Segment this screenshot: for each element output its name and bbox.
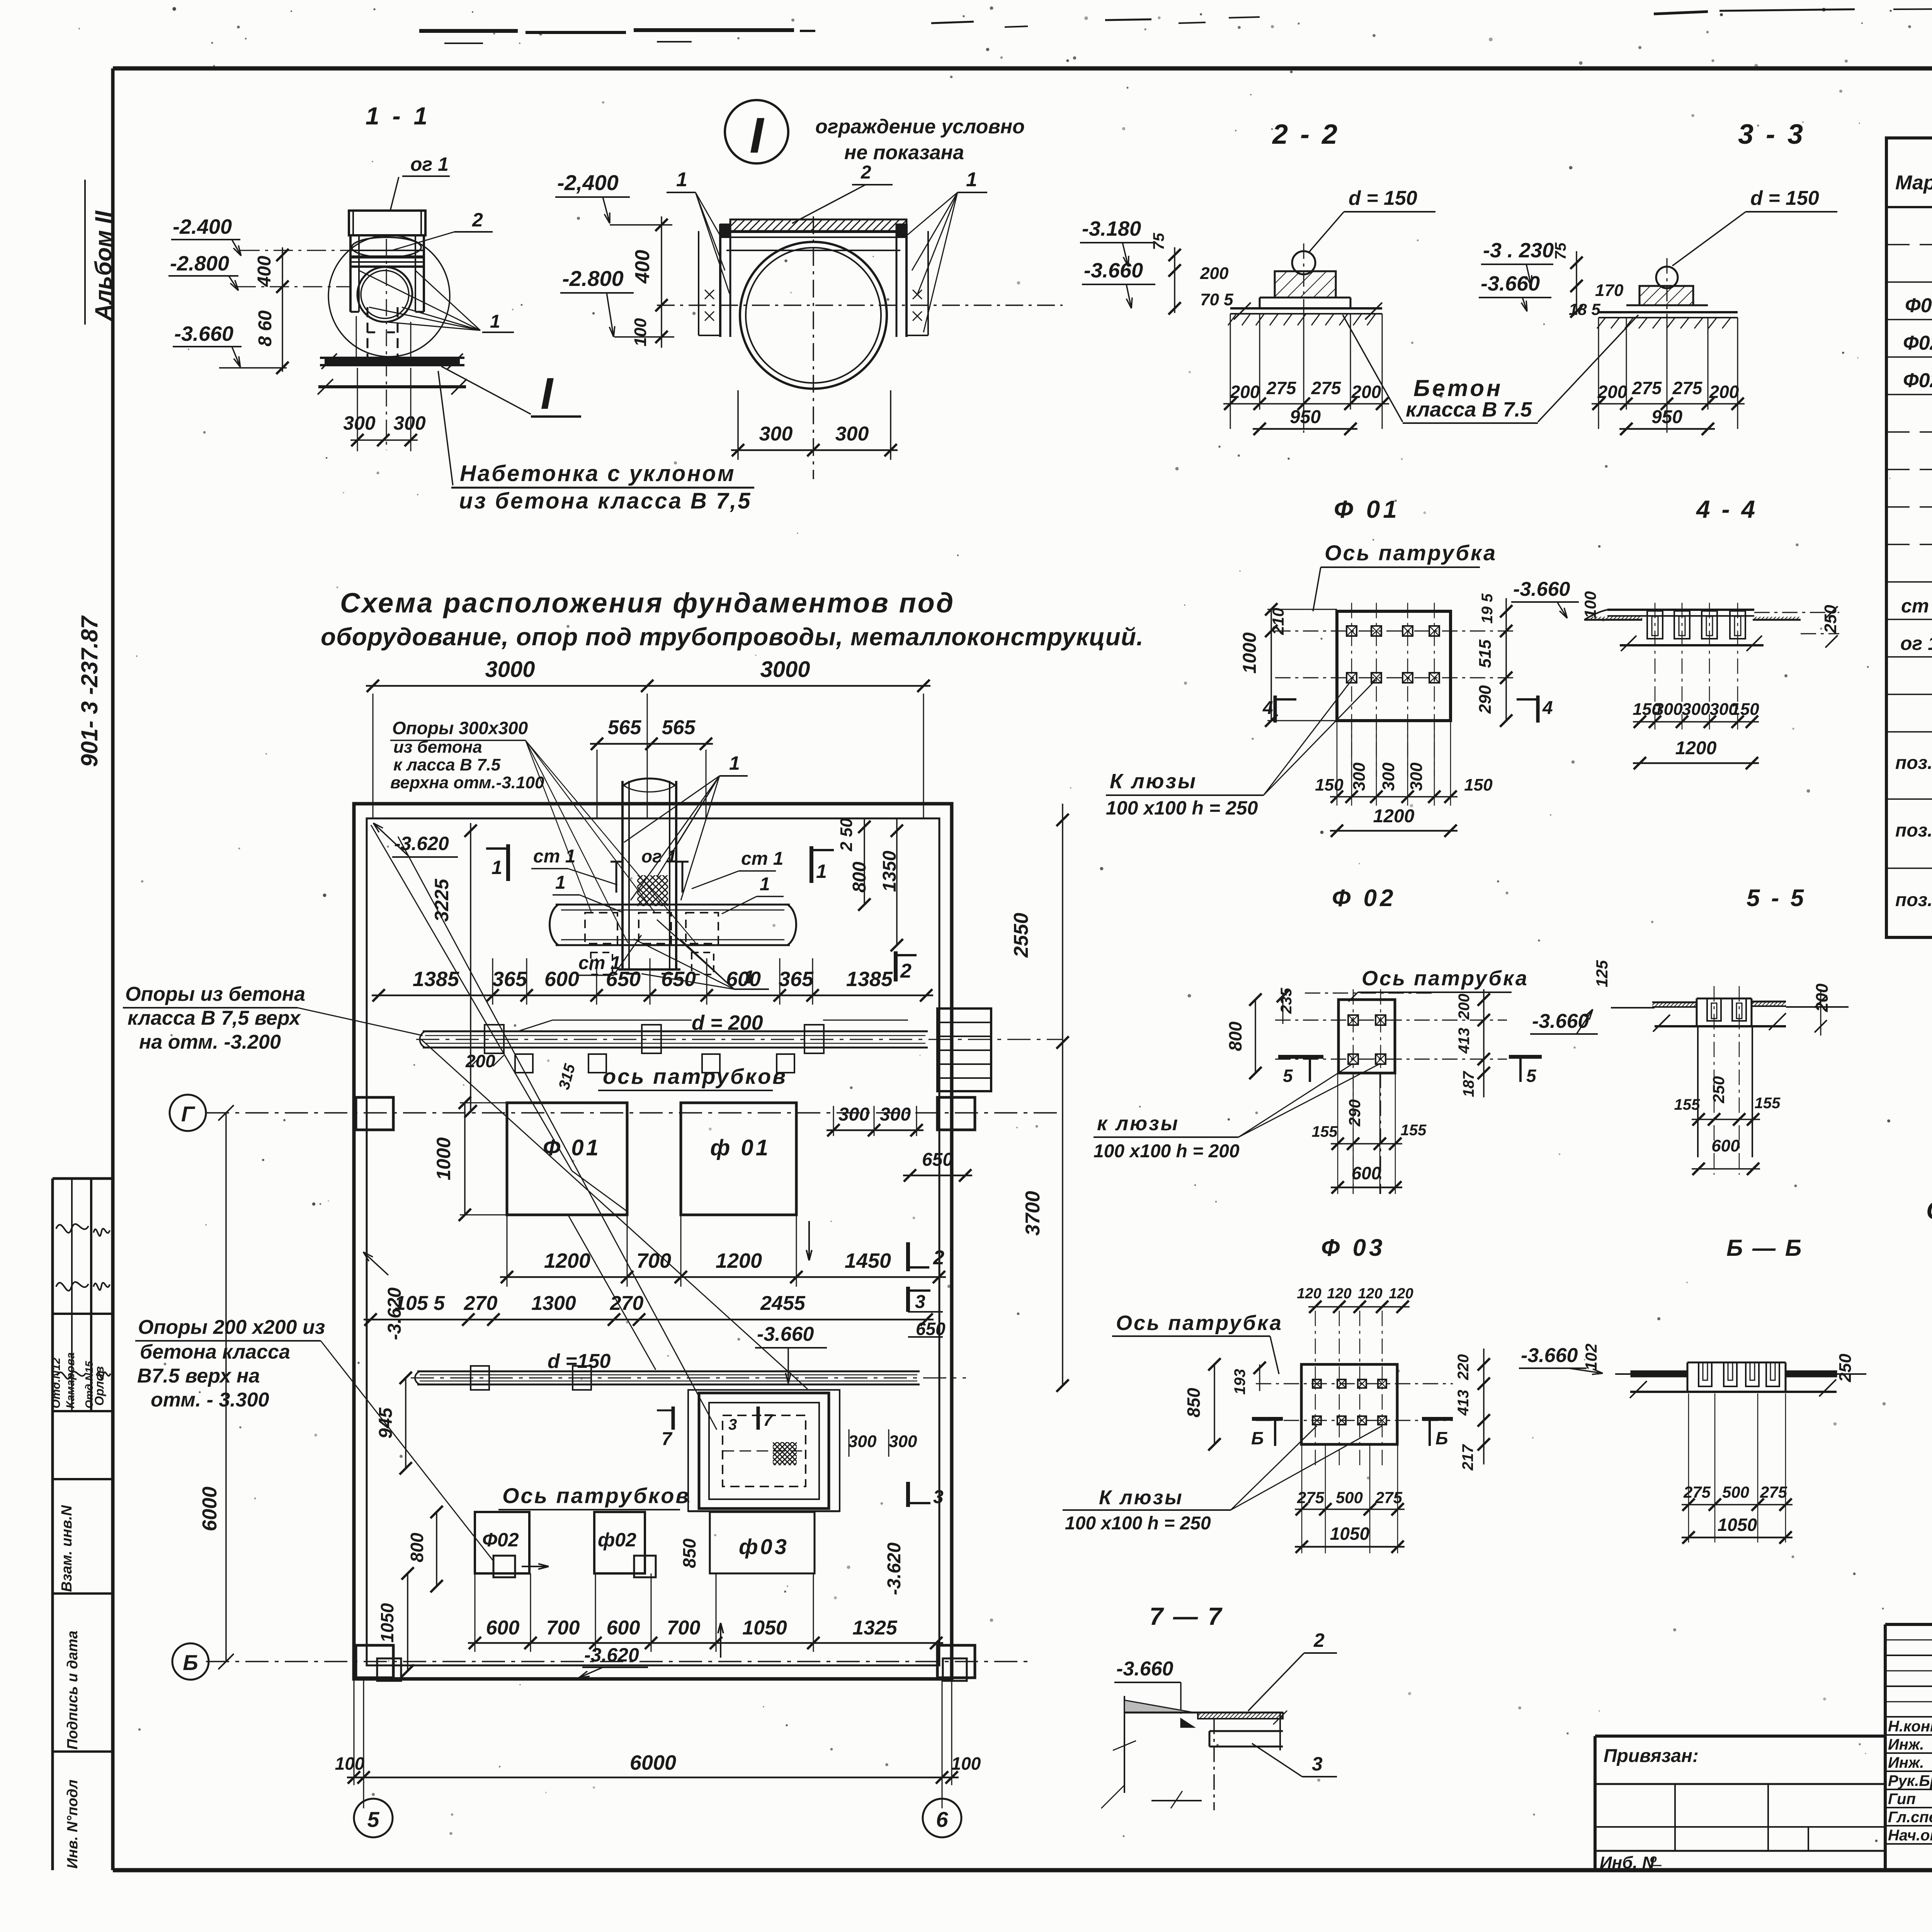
svg-text:500: 500 — [1336, 1488, 1363, 1507]
svg-text:-2.400: -2.400 — [173, 215, 232, 238]
svg-text:290: 290 — [1476, 685, 1495, 714]
svg-text:ст 1: ст 1 — [1901, 595, 1932, 617]
svg-text:бетона класса: бетона класса — [140, 1341, 290, 1363]
svg-text:2: 2 — [472, 209, 483, 231]
svg-text:120: 120 — [1389, 1286, 1413, 1302]
svg-text:Опоры 300х300: Опоры 300х300 — [392, 718, 528, 738]
svg-text:275: 275 — [1632, 378, 1662, 398]
svg-text:d = 150: d = 150 — [1349, 187, 1417, 209]
svg-text:300: 300 — [848, 1432, 877, 1451]
svg-text:-3.620: -3.620 — [384, 1287, 405, 1340]
svg-text:600: 600 — [544, 968, 579, 991]
svg-text:2550: 2550 — [1010, 913, 1032, 958]
svg-text:ог 1: ог 1 — [641, 846, 677, 866]
svg-text:ог 1: ог 1 — [410, 153, 449, 175]
svg-text:75: 75 — [1150, 233, 1167, 250]
svg-text:-3.660: -3.660 — [174, 322, 233, 345]
svg-text:1: 1 — [492, 857, 502, 878]
svg-text:565: 565 — [662, 716, 696, 739]
svg-text:Ф 01: Ф 01 — [1334, 495, 1400, 523]
svg-text:Привязан:: Привязан: — [1604, 1746, 1699, 1766]
svg-text:I: I — [541, 369, 554, 418]
svg-text:-2.800: -2.800 — [170, 252, 229, 275]
svg-text:d =150: d =150 — [548, 1350, 611, 1372]
svg-text:-3.620: -3.620 — [884, 1543, 905, 1595]
svg-text:поз. 3: поз. 3 — [1895, 890, 1932, 910]
svg-text:1 - 1: 1 - 1 — [366, 102, 430, 130]
svg-text:565: 565 — [608, 716, 642, 739]
svg-text:3000: 3000 — [760, 657, 810, 682]
svg-text:300: 300 — [1350, 762, 1369, 791]
svg-text:ог 1: ог 1 — [1900, 633, 1932, 654]
svg-text:1000: 1000 — [1240, 632, 1260, 673]
svg-text:187: 187 — [1460, 1071, 1477, 1097]
svg-text:275: 275 — [1672, 378, 1703, 398]
svg-text:Ф02: Ф02 — [1903, 369, 1932, 392]
svg-text:1: 1 — [966, 168, 977, 191]
svg-text:2 50: 2 50 — [837, 818, 856, 852]
svg-text:7: 7 — [763, 1411, 774, 1430]
svg-text:400: 400 — [631, 250, 654, 284]
svg-text:650: 650 — [916, 1319, 946, 1339]
svg-text:200: 200 — [1456, 994, 1473, 1020]
svg-text:к ласса В 7.5: к ласса В 7.5 — [393, 755, 501, 774]
svg-text:-3.660: -3.660 — [1513, 578, 1570, 600]
svg-text:7: 7 — [662, 1429, 673, 1449]
svg-text:Набетонка с уклоном: Набетонка с уклоном — [460, 461, 736, 486]
svg-text:к люзы: к люзы — [1097, 1112, 1179, 1135]
svg-text:300: 300 — [1407, 762, 1426, 791]
svg-text:1200: 1200 — [716, 1249, 762, 1272]
svg-text:Камарова: Камарова — [64, 1352, 77, 1408]
svg-text:Инж.: Инж. — [1888, 1736, 1924, 1753]
svg-text:d = 200: d = 200 — [692, 1011, 763, 1034]
svg-text:400: 400 — [254, 256, 275, 287]
svg-text:-3.660: -3.660 — [1481, 272, 1540, 295]
svg-text:300: 300 — [759, 423, 793, 445]
svg-text:-3.660: -3.660 — [1521, 1344, 1578, 1367]
svg-text:-2.800: -2.800 — [562, 266, 624, 291]
svg-text:500: 500 — [1722, 1483, 1749, 1501]
svg-text:413: 413 — [1455, 1390, 1472, 1416]
svg-text:270: 270 — [610, 1292, 644, 1315]
svg-text:не показана: не показана — [844, 141, 964, 164]
svg-text:125: 125 — [1593, 960, 1611, 987]
svg-text:1385: 1385 — [413, 968, 459, 991]
svg-text:250: 250 — [1821, 605, 1840, 634]
svg-text:5: 5 — [367, 1807, 379, 1832]
svg-text:200: 200 — [1351, 382, 1381, 402]
svg-text:-3.660: -3.660 — [757, 1323, 814, 1345]
svg-text:Взам. инв.N: Взам. инв.N — [59, 1505, 75, 1592]
svg-text:250: 250 — [1836, 1354, 1855, 1383]
svg-text:поз. 1: поз. 1 — [1895, 753, 1932, 773]
svg-text:3: 3 — [728, 1416, 737, 1433]
svg-text:Г: Г — [181, 1102, 196, 1126]
svg-text:6: 6 — [936, 1807, 948, 1832]
svg-text:700: 700 — [546, 1617, 580, 1639]
svg-text:150: 150 — [1731, 700, 1759, 719]
svg-text:200: 200 — [1200, 264, 1229, 283]
svg-text:155: 155 — [1401, 1122, 1427, 1139]
svg-text:850: 850 — [679, 1538, 699, 1568]
svg-text:Ось патрубка: Ось патрубка — [1325, 541, 1497, 565]
svg-text:1450: 1450 — [845, 1249, 891, 1272]
svg-text:250: 250 — [1709, 1076, 1728, 1104]
svg-text:275: 275 — [1760, 1483, 1787, 1501]
svg-text:Б: Б — [1251, 1428, 1264, 1448]
svg-text:275: 275 — [1683, 1483, 1711, 1501]
svg-text:3: 3 — [933, 1487, 944, 1507]
svg-text:600: 600 — [726, 968, 761, 991]
svg-text:270: 270 — [464, 1292, 498, 1315]
svg-text:170: 170 — [1595, 281, 1624, 300]
svg-text:1300: 1300 — [531, 1292, 576, 1315]
svg-text:950: 950 — [1290, 407, 1321, 427]
svg-text:220: 220 — [1455, 1354, 1472, 1381]
svg-text:5: 5 — [1526, 1066, 1537, 1086]
svg-text:1: 1 — [555, 872, 566, 893]
svg-text:ст 1: ст 1 — [533, 846, 575, 867]
svg-text:120: 120 — [1297, 1286, 1321, 1302]
svg-text:100: 100 — [631, 318, 650, 347]
svg-text:150: 150 — [1464, 776, 1493, 794]
svg-text:290: 290 — [1345, 1099, 1364, 1127]
svg-text:2: 2 — [1313, 1629, 1325, 1651]
svg-text:515: 515 — [1476, 639, 1495, 668]
svg-text:К люзы: К люзы — [1099, 1486, 1184, 1509]
svg-text:Опоры 200 х200 из: Опоры 200 х200 из — [138, 1316, 325, 1338]
svg-text:950: 950 — [1651, 407, 1682, 427]
svg-text:650: 650 — [922, 1150, 953, 1170]
svg-text:Схема расположения фундаменто: Схема расположения фундаментов под — [340, 588, 955, 619]
svg-text:800: 800 — [1225, 1021, 1245, 1051]
svg-text:6000: 6000 — [630, 1751, 676, 1774]
svg-text:Инб. N: Инб. N — [1600, 1853, 1655, 1872]
svg-text:Б — Б: Б — Б — [1726, 1235, 1803, 1261]
svg-text:ст 1: ст 1 — [741, 849, 783, 869]
svg-text:155: 155 — [1674, 1096, 1700, 1113]
svg-text:ф02: ф02 — [598, 1529, 636, 1551]
svg-text:1050: 1050 — [742, 1617, 787, 1639]
svg-text:5 - 5: 5 - 5 — [1747, 885, 1806, 912]
svg-text:300: 300 — [838, 1104, 869, 1125]
svg-text:150: 150 — [1315, 776, 1344, 794]
svg-text:650: 650 — [606, 968, 641, 991]
svg-text:210: 210 — [1269, 608, 1287, 635]
svg-text:155: 155 — [1312, 1123, 1338, 1140]
svg-text:-3.660: -3.660 — [1084, 259, 1143, 282]
svg-text:отм. - 3.300: отм. - 3.300 — [151, 1389, 269, 1411]
svg-text:Ось патрубка: Ось патрубка — [1116, 1311, 1283, 1335]
svg-text:Ф02: Ф02 — [1903, 332, 1932, 354]
svg-text:2: 2 — [900, 960, 912, 982]
svg-text:300: 300 — [1379, 762, 1398, 791]
svg-text:Опоры из бетона: Опоры из бетона — [125, 983, 305, 1005]
svg-text:Подпись и дата: Подпись и дата — [65, 1631, 81, 1750]
svg-text:Рук.Бр.: Рук.Бр. — [1888, 1772, 1932, 1789]
svg-text:Ф02: Ф02 — [482, 1529, 519, 1551]
svg-text:800: 800 — [849, 862, 870, 893]
svg-text:7 — 7: 7 — 7 — [1150, 1602, 1223, 1630]
svg-text:1200: 1200 — [1373, 806, 1415, 827]
svg-text:365: 365 — [779, 968, 814, 991]
svg-text:413: 413 — [1456, 1028, 1473, 1054]
svg-text:Инв. N°подл: Инв. N°подл — [65, 1779, 81, 1869]
svg-text:1050: 1050 — [1330, 1524, 1370, 1544]
svg-text:4: 4 — [1542, 698, 1553, 718]
svg-text:о: о — [1650, 1852, 1657, 1865]
svg-text:800: 800 — [407, 1532, 427, 1562]
svg-text:1200: 1200 — [1675, 738, 1717, 759]
svg-text:-2,400: -2,400 — [557, 170, 619, 195]
svg-text:365: 365 — [492, 968, 527, 991]
svg-text:217: 217 — [1459, 1444, 1476, 1471]
svg-text:3: 3 — [915, 1292, 925, 1312]
svg-text:-3 . 230: -3 . 230 — [1483, 239, 1554, 262]
svg-text:1325: 1325 — [852, 1617, 898, 1639]
svg-text:2: 2 — [861, 162, 871, 183]
svg-text:300: 300 — [889, 1432, 917, 1451]
svg-text:Н.контр: Н.контр — [1888, 1718, 1932, 1735]
svg-text:3: 3 — [1312, 1753, 1323, 1775]
svg-text:300: 300 — [343, 412, 376, 434]
svg-text:1200: 1200 — [544, 1249, 590, 1272]
svg-text:класса В 7,5 верх: класса В 7,5 верх — [128, 1007, 301, 1029]
svg-text:155: 155 — [1755, 1095, 1781, 1112]
svg-text:1: 1 — [816, 861, 827, 882]
svg-text:901- 3 -237.87: 901- 3 -237.87 — [77, 615, 102, 767]
svg-text:6000: 6000 — [199, 1486, 221, 1531]
svg-text:поз. 2: поз. 2 — [1895, 820, 1932, 841]
svg-text:300: 300 — [1682, 700, 1710, 719]
svg-text:4 - 4: 4 - 4 — [1696, 495, 1757, 523]
svg-text:5: 5 — [1283, 1066, 1293, 1086]
svg-text:70 5: 70 5 — [1200, 290, 1233, 309]
svg-text:700: 700 — [667, 1617, 701, 1639]
svg-text:300: 300 — [835, 423, 869, 445]
svg-text:Б: Б — [1435, 1428, 1448, 1448]
svg-text:ограждение условно: ограждение условно — [815, 116, 1025, 138]
svg-text:Б: Б — [183, 1650, 198, 1675]
svg-text:Ф 01: Ф 01 — [543, 1135, 601, 1160]
svg-text:650: 650 — [661, 968, 696, 991]
svg-text:1: 1 — [729, 752, 740, 774]
svg-text:275: 275 — [1375, 1488, 1403, 1507]
svg-text:Нач.отд: Нач.отд — [1888, 1827, 1932, 1844]
svg-text:3700: 3700 — [1022, 1191, 1044, 1236]
svg-text:102: 102 — [1582, 1344, 1600, 1371]
svg-text:8 60: 8 60 — [255, 310, 276, 347]
svg-text:I: I — [750, 107, 765, 163]
svg-text:-3.180: -3.180 — [1082, 217, 1141, 240]
svg-text:1050: 1050 — [1718, 1515, 1757, 1535]
svg-text:Ось патрубка: Ось патрубка — [1362, 967, 1529, 990]
svg-text:1000: 1000 — [433, 1137, 454, 1180]
svg-text:100: 100 — [335, 1753, 365, 1774]
svg-text:120: 120 — [1358, 1286, 1382, 1302]
svg-text:275: 275 — [1311, 378, 1342, 398]
svg-text:Ф01: Ф01 — [1905, 294, 1932, 317]
svg-text:Марка: Марка — [1895, 172, 1932, 194]
svg-text:Совместно с данным см. л: Совместно с данным см. л. КЖ-2. — [1926, 1196, 1932, 1225]
svg-text:19 5: 19 5 — [1479, 593, 1496, 624]
svg-text:1350: 1350 — [879, 850, 900, 892]
svg-text:Инж.: Инж. — [1888, 1754, 1924, 1771]
svg-text:-3.660: -3.660 — [1116, 1658, 1173, 1680]
svg-text:4: 4 — [1262, 698, 1273, 718]
svg-text:600: 600 — [607, 1617, 640, 1639]
svg-text:200: 200 — [1230, 382, 1260, 402]
svg-text:300: 300 — [1654, 700, 1683, 719]
svg-text:Гип: Гип — [1888, 1791, 1916, 1808]
svg-text:Бетон: Бетон — [1413, 375, 1503, 401]
svg-text:Гл.спец.: Гл.спец. — [1888, 1809, 1932, 1826]
svg-text:600: 600 — [486, 1617, 520, 1639]
svg-text:200: 200 — [1597, 382, 1628, 402]
svg-text:2455: 2455 — [760, 1292, 806, 1315]
svg-text:из бетона класса В 7,5: из бетона класса В 7,5 — [459, 488, 752, 514]
svg-text:Ф 03: Ф 03 — [1321, 1235, 1386, 1261]
svg-text:К люзы: К люзы — [1110, 770, 1197, 793]
svg-text:3000: 3000 — [485, 657, 535, 682]
svg-text:120: 120 — [1327, 1286, 1351, 1302]
svg-text:275: 275 — [1297, 1488, 1325, 1507]
svg-text:d = 150: d = 150 — [1750, 187, 1819, 209]
svg-text:1385: 1385 — [846, 968, 893, 991]
svg-text:100 х100 h = 250: 100 х100 h = 250 — [1106, 797, 1258, 819]
svg-text:верхна отм.-3.100: верхна отм.-3.100 — [390, 773, 544, 792]
svg-text:100 х100 h = 200: 100 х100 h = 200 — [1094, 1141, 1240, 1162]
svg-text:100: 100 — [1581, 591, 1599, 618]
svg-text:3225: 3225 — [431, 878, 452, 922]
svg-text:из бетона: из бетона — [393, 738, 482, 757]
svg-text:2 - 2: 2 - 2 — [1272, 119, 1340, 150]
svg-text:300: 300 — [393, 412, 426, 434]
svg-text:100: 100 — [951, 1753, 981, 1774]
svg-text:ф03: ф03 — [739, 1534, 789, 1559]
svg-text:300: 300 — [880, 1104, 911, 1125]
svg-text:2: 2 — [933, 1247, 944, 1269]
svg-text:класса В 7.5: класса В 7.5 — [1406, 398, 1532, 421]
svg-text:Ось патрубков: Ось патрубков — [502, 1483, 690, 1508]
svg-text:оборудование, опор под труб: оборудование, опор под трубопроводы, мет… — [321, 623, 1144, 651]
svg-text:200: 200 — [1709, 382, 1739, 402]
svg-text:Отд.N12: Отд.N12 — [50, 1357, 63, 1408]
svg-text:100 х100 h = 250: 100 х100 h = 250 — [1065, 1513, 1211, 1534]
svg-text:200: 200 — [465, 1051, 495, 1071]
svg-text:18 5: 18 5 — [1569, 300, 1600, 318]
svg-text:600: 600 — [1711, 1136, 1740, 1155]
svg-text:3 - 3: 3 - 3 — [1738, 119, 1805, 150]
svg-text:850: 850 — [1184, 1388, 1204, 1417]
svg-text:ф 01: ф 01 — [710, 1135, 770, 1160]
svg-text:1: 1 — [676, 168, 687, 191]
svg-text:Ф 02: Ф 02 — [1332, 885, 1396, 912]
svg-text:на отм. -3.200: на отм. -3.200 — [139, 1031, 281, 1053]
svg-text:600: 600 — [1352, 1163, 1381, 1183]
svg-text:ось патрубков: ось патрубков — [603, 1064, 787, 1088]
svg-text:1: 1 — [490, 311, 500, 332]
svg-text:1050: 1050 — [377, 1603, 397, 1643]
svg-text:75: 75 — [1552, 242, 1569, 260]
svg-text:В7.5 верх на: В7.5 верх на — [137, 1365, 260, 1387]
svg-text:1: 1 — [760, 874, 770, 895]
svg-text:Альбом II: Альбом II — [90, 210, 116, 321]
svg-text:193: 193 — [1231, 1369, 1248, 1395]
svg-text:275: 275 — [1266, 378, 1297, 398]
